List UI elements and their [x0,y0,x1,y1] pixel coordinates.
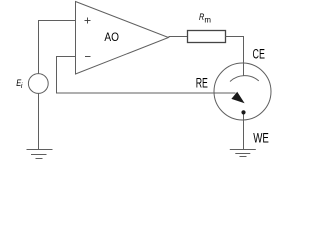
svg-text:RE: RE [196,76,208,91]
svg-text:m: m [204,14,211,24]
svg-text:AO: AO [104,30,119,44]
svg-text:CE: CE [253,47,265,62]
svg-text:WE: WE [253,131,269,146]
svg-text:i: i [21,83,23,90]
